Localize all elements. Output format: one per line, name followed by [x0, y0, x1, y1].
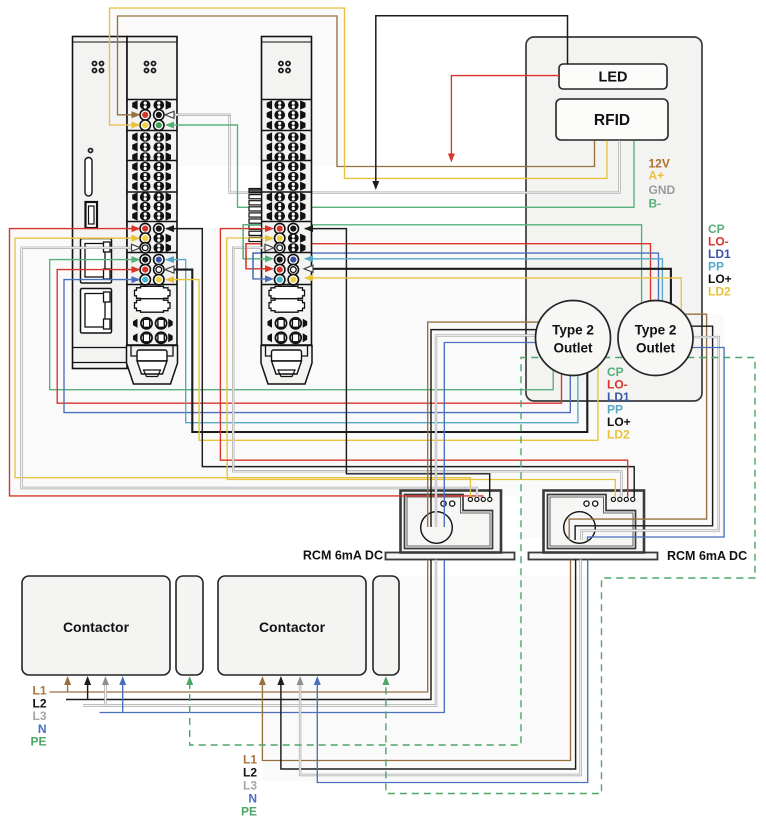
wire LO- red: U2 pin arrow stub	[246, 244, 273, 269]
wire N blue: outlet 2 to RCM2 to contactor K2	[588, 348, 725, 541]
wire L3 gray: outlet 1 to RCM1 to contactor K1	[436, 335, 566, 527]
svg-text:N: N	[248, 792, 257, 806]
wire PP cyan: U1 pin to outlet 1	[166, 260, 578, 423]
wire LD1 blue: U1 pin to outlet 1	[64, 280, 570, 413]
wire L2 black: outlet 2 to RCM2 to contactor K2	[575, 326, 713, 540]
RCM 2 (residual current monitor)	[529, 553, 658, 560]
wire red: U1 pin to RCM1 terminal	[10, 229, 484, 496]
svg-text:B-: B-	[649, 197, 662, 211]
wire LO+ black: U1 pin to outlet 1	[166, 270, 587, 432]
svg-text:Contactor: Contactor	[259, 619, 326, 635]
svg-text:LD2: LD2	[607, 427, 630, 441]
LED box	[559, 64, 667, 89]
wire L2 black: outlet 1 to RCM1 to contactor K1	[431, 330, 563, 527]
wire PE green dashed loop	[190, 358, 755, 794]
Type 2 outlet 2	[618, 301, 693, 376]
enclosure around LED/RFID/outlets	[526, 37, 702, 401]
aux block K2	[373, 576, 399, 675]
wire CP green: to outlet 2 (behind module U2)	[243, 225, 641, 335]
wire yellow: U1 pin to RCM1 terminal	[15, 238, 470, 497]
svg-text:Outlet: Outlet	[636, 341, 676, 356]
wire N blue: outlet 1 to RCM1 to contactor K1	[444, 343, 568, 528]
svg-text:Outlet: Outlet	[554, 341, 594, 356]
wire LD1 blue: U2 pin arrow stub	[253, 253, 273, 279]
svg-text:Type 2: Type 2	[635, 323, 677, 338]
wire L1 brown: outlet 2 to RCM2 to contactor K2	[569, 314, 706, 540]
wire LO- red: U1 pin to outlet 1	[57, 270, 561, 404]
wire LD1 blue: to outlet 2 (behind module U2)	[253, 253, 659, 335]
svg-text:Type 2: Type 2	[552, 323, 594, 338]
svg-text:RFID: RFID	[594, 112, 630, 129]
wire red riser: U2 pin feed and RCM2 terminal	[220, 229, 627, 497]
PLC controller module U1 io column	[127, 37, 177, 346]
contactor K2	[218, 576, 366, 675]
RFID box	[556, 99, 668, 140]
wire GND gray arrow stub	[166, 114, 230, 116]
PLC controller module U1 body	[73, 37, 128, 369]
svg-text:LED: LED	[599, 70, 628, 86]
wire CP green: U1 pin to outlet 1	[50, 260, 554, 390]
svg-text:Contactor: Contactor	[63, 619, 130, 635]
svg-text:L2: L2	[243, 766, 257, 780]
wire LO- red: to outlet 2 (behind module U2)	[246, 244, 651, 335]
svg-text:RCM 6mA DC: RCM 6mA DC	[303, 549, 383, 563]
svg-text:GND: GND	[649, 183, 676, 197]
wire GND gray: module U1 pin to RFID	[166, 115, 620, 193]
wire PP cyan: U2 pin to outlet 2	[305, 259, 662, 335]
contactor K1	[22, 576, 170, 675]
Type 2 outlet 1	[536, 301, 611, 376]
wire black: U2 pin to RCM1 terminal	[305, 229, 490, 497]
wire CP green: U2 pin arrow stub	[243, 225, 272, 259]
wire B- green arrow stub	[166, 124, 238, 126]
wire black: U1 pin riser to RCM2 terminal	[166, 229, 634, 497]
wire LD2 yellow: U1 pin to outlet 1	[166, 280, 598, 441]
svg-text:PE: PE	[30, 735, 46, 749]
wire LED supply black	[376, 16, 568, 185]
wire yellow riser: U2 pin feed and RCM2 terminal	[227, 238, 616, 497]
wire white/gray: U1 pin to RCM1 terminal	[22, 248, 478, 497]
wire B- green: module U1 pin to RFID	[166, 125, 634, 207]
module U2 foot	[261, 346, 312, 385]
svg-text:RCM 6mA DC: RCM 6mA DC	[667, 549, 747, 563]
wire A+ yellow: module U1 pin to RFID	[110, 8, 608, 178]
svg-text:L1: L1	[243, 753, 257, 767]
aux block K1	[176, 576, 203, 675]
wire L3 gray: outlet 2 to RCM2 to contactor K2	[582, 337, 719, 540]
svg-text:L3: L3	[243, 779, 257, 793]
wire gray riser: U2 pin feed and RCM2 terminal	[233, 248, 621, 497]
wire LO+ black: U2 pin to outlet 2	[305, 269, 671, 335]
wire L1 brown: outlet 1 to RCM1 to contactor K1	[428, 322, 560, 527]
svg-text:PE: PE	[241, 805, 257, 819]
RCM 1 (residual current monitor)	[386, 553, 515, 560]
svg-text:LD2: LD2	[708, 285, 731, 299]
wire LD2 yellow: U2 pin to outlet 2	[305, 278, 681, 335]
module U1 foot	[127, 346, 178, 385]
IO module U2	[262, 37, 312, 346]
wire 12V brown: module U1 pin to RFID	[118, 16, 595, 167]
svg-text:A+: A+	[649, 169, 665, 183]
wire LED red with arrow to 12V	[451, 76, 559, 157]
